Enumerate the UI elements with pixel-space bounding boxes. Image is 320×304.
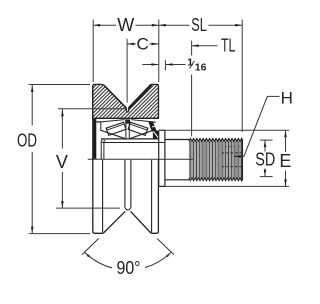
svg-text:E: E xyxy=(279,151,291,171)
thread body xyxy=(189,141,243,178)
hex flat hidden line lower xyxy=(222,166,242,168)
cage line right xyxy=(130,124,147,130)
stud flange line A xyxy=(101,140,102,159)
stud flange line B xyxy=(104,140,105,159)
outer race right xyxy=(131,120,156,123)
wheel lower half: right face and bottom rim xyxy=(131,160,159,234)
E extension line bottom xyxy=(165,185,289,187)
stud end face xyxy=(241,139,243,181)
W dimension line xyxy=(93,24,116,26)
stud shank top xyxy=(165,139,189,141)
E dimension line xyxy=(285,131,287,152)
rim inner edge right xyxy=(151,160,153,232)
OD extension line top xyxy=(29,84,90,86)
C dimension line xyxy=(127,43,136,45)
arc arrow left xyxy=(85,252,90,257)
svg-text:OD: OD xyxy=(17,131,37,151)
thread crest top xyxy=(189,139,243,142)
1/16 right extension stub xyxy=(164,60,166,71)
OD dimension line xyxy=(31,85,33,126)
washer outline xyxy=(158,130,160,186)
90 deg arc right xyxy=(145,252,171,267)
90 deg arc left xyxy=(85,252,112,268)
cage line left xyxy=(107,124,124,130)
rib line right xyxy=(128,124,130,139)
svg-text:TL: TL xyxy=(221,36,236,56)
hex hidden line faint xyxy=(225,146,243,148)
V dimension line xyxy=(61,109,63,148)
rim inner edge left xyxy=(102,160,104,232)
H leader xyxy=(234,96,280,156)
SD stub top xyxy=(260,139,273,141)
bearing left seal xyxy=(93,118,97,159)
bearing seat shoulder line xyxy=(102,142,164,144)
bearing right seal lower block xyxy=(153,131,159,139)
thread flanks dark xyxy=(190,141,241,179)
svg-text:SL: SL xyxy=(191,15,207,35)
svg-text:V: V xyxy=(56,152,68,172)
svg-text:16: 16 xyxy=(195,61,207,73)
cone face left xyxy=(101,130,126,139)
groove root edge left xyxy=(124,160,126,208)
svg-text:W: W xyxy=(117,15,134,35)
E extension line top xyxy=(159,129,290,131)
groove root edge right xyxy=(130,160,132,208)
C extension line (groove center) xyxy=(126,39,128,103)
groove root bottom xyxy=(125,208,131,211)
V extension line top xyxy=(58,108,126,110)
wheel lower half: left face and bottom rim xyxy=(93,86,125,233)
1/16 dimension xyxy=(142,64,158,66)
svg-text:C: C xyxy=(137,35,149,54)
rib line left xyxy=(125,124,127,139)
svg-text:90°: 90° xyxy=(117,258,141,278)
bearing right seal upper xyxy=(151,122,155,133)
W extension line left xyxy=(92,20,94,83)
arc arrow right xyxy=(166,252,171,257)
stud top under bearing xyxy=(101,138,159,140)
washer top edge xyxy=(159,129,165,131)
thread crest bottom xyxy=(189,178,243,181)
roller left xyxy=(106,122,126,135)
90 deg flank extension right xyxy=(157,239,174,255)
inner ring left edge xyxy=(96,121,101,123)
SL dimension line xyxy=(159,24,190,26)
thread flanks light xyxy=(192,142,240,178)
SD stub bottom xyxy=(260,176,273,178)
center rib block xyxy=(125,119,130,123)
V-groove right slope shade line xyxy=(129,85,151,108)
roller right xyxy=(128,122,148,135)
stud shank bottom xyxy=(165,179,189,181)
V extension line bottom xyxy=(56,207,120,209)
svg-text:SD: SD xyxy=(255,150,275,170)
OD extension line bottom xyxy=(29,233,90,235)
hex flat hidden line upper xyxy=(222,152,242,154)
centerline xyxy=(88,158,193,160)
outer race left xyxy=(97,120,125,123)
shared extension line W/SL xyxy=(158,20,160,83)
svg-text:H: H xyxy=(281,88,293,107)
wheel upper-half section (hatched) xyxy=(93,84,159,118)
cone face right xyxy=(129,130,153,139)
SL extension line right xyxy=(241,20,243,133)
90 deg flank extension left xyxy=(82,239,99,255)
TL dimension line xyxy=(192,45,218,47)
SD dimension line xyxy=(264,140,266,151)
V-groove left slope line xyxy=(104,86,126,108)
TL extension line xyxy=(191,41,193,56)
